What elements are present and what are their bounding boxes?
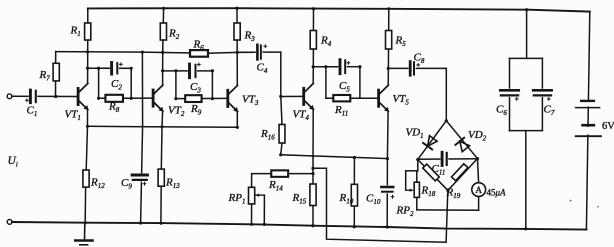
svg-text:A: A	[475, 186, 482, 196]
svg-text:μA: μA	[495, 188, 507, 198]
svg-text:6V: 6V	[602, 121, 614, 132]
